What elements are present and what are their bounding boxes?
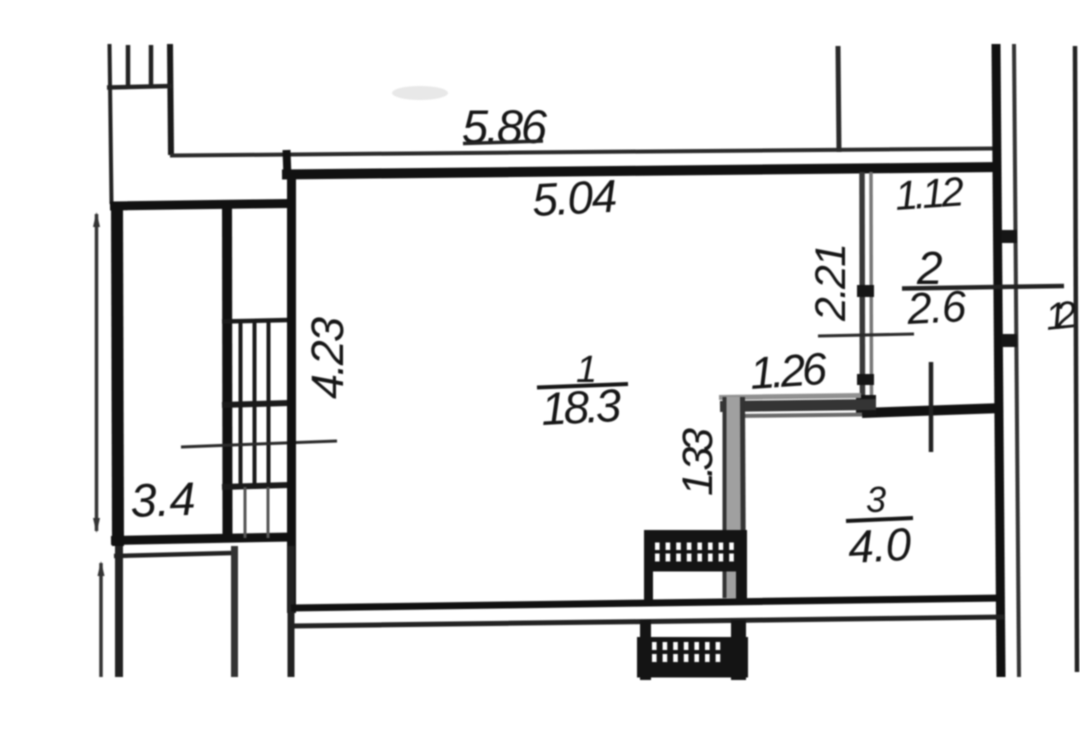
arrowhead top of lower-left dimension — [98, 561, 105, 576]
svg-text:5.86: 5.86 — [462, 100, 548, 153]
svg-text:5.04: 5.04 — [531, 170, 619, 226]
vent shaft lower: left rail — [640, 620, 651, 680]
dimension line left vertical (3.4 room height) — [95, 214, 99, 531]
wall: main top exterior wall — [282, 167, 1001, 175]
stair vertical 1 — [239, 322, 243, 486]
wall: outer parallel line right side — [1014, 44, 1019, 677]
faint smudge near top middle — [392, 86, 448, 100]
vent shaft lower: black block with bottom bar — [637, 637, 748, 678]
wall: room2/room3 divider wall — [862, 408, 1003, 413]
wall: top-left shaft bottom — [107, 86, 172, 88]
closet grey wall horizontal top — [719, 396, 861, 398]
vertical tick through room2/3 wall — [929, 362, 934, 452]
wall: room 3.4 top wall — [110, 204, 289, 207]
dimension line lower-left vertical — [99, 563, 103, 677]
svg-text:2.21: 2.21 — [807, 243, 855, 322]
stair lower vertical 1 — [244, 487, 247, 538]
wall: below-floor vertical right — [288, 546, 295, 677]
wall: room 3.4 bottom inner line — [114, 553, 232, 556]
wall: room 3.4 bottom wall — [111, 537, 293, 541]
closet grey wall horizontal inner line — [736, 415, 862, 417]
svg-text:4.0: 4.0 — [847, 518, 913, 573]
tick on right wall upper — [1001, 230, 1017, 243]
leader line under 2.21 — [818, 334, 914, 336]
stair vertical 3 — [267, 322, 271, 486]
wall: top-left shaft hatch line 2 — [149, 45, 154, 87]
svg-text:3.4: 3.4 — [129, 472, 196, 527]
wall: below-floor vertical middle — [231, 546, 238, 677]
room 1 fraction line — [537, 384, 628, 388]
wall: main room left wall — [287, 172, 296, 613]
arrowhead bottom of left dimension — [93, 518, 100, 533]
closet grey wall vertical right edge — [743, 397, 744, 598]
stair rung bottom — [222, 485, 289, 487]
black stub joining divider and closet wall — [856, 395, 876, 415]
vent shaft upper: right rail — [736, 530, 747, 600]
wall: far right edge line — [1075, 46, 1077, 672]
svg-text:12: 12 — [1044, 294, 1079, 339]
wall: divider room1/room2 right line — [869, 172, 873, 410]
wall: top-left shaft left wall — [110, 44, 112, 204]
svg-text:1.33: 1.33 — [674, 428, 722, 496]
wall: divider room1/room2 left line — [859, 172, 865, 410]
vent shaft lower: white hatch dashes — [652, 642, 657, 650]
door jamb blob lower on divider — [857, 374, 874, 385]
wall: divider room3.4 / stair shaft — [222, 205, 233, 540]
wall: main bottom wall line 2 — [291, 617, 1004, 626]
vent shaft upper: left rail — [644, 530, 653, 600]
stair rung middle — [222, 403, 289, 405]
stair lower vertical 2 — [267, 487, 270, 538]
dimension line 5.86 (corridor top edge) — [170, 149, 995, 156]
svg-text:1.12: 1.12 — [893, 168, 965, 219]
stair rung top — [222, 320, 289, 322]
svg-text:4.23: 4.23 — [302, 317, 353, 399]
room 2 fraction line / 2.6 leader — [902, 286, 1064, 289]
closet grey wall vertical band fill — [723, 397, 745, 598]
vent shaft upper: white hatch dashes — [655, 543, 660, 551]
closet grey wall vertical left edge — [723, 397, 727, 598]
wall: top-left shaft right wall — [170, 44, 171, 155]
wall: room 3.4 left wall — [117, 203, 118, 546]
leader line for 4.23 — [181, 441, 337, 447]
wall: right exterior wall — [996, 44, 1001, 677]
svg-text:2.6: 2.6 — [905, 282, 968, 334]
tick on right wall lower — [1001, 334, 1017, 347]
wall: balcony divider above top wall — [838, 46, 839, 152]
svg-text:18.3: 18.3 — [540, 379, 623, 435]
arrowhead top of left dimension — [93, 212, 100, 227]
wall: main bottom wall line 1 — [291, 598, 1004, 608]
stair vertical 2 — [253, 322, 257, 486]
room 3 fraction line — [846, 518, 913, 521]
svg-text:1.26: 1.26 — [748, 343, 829, 399]
wall: top-left shaft hatch line 1 — [126, 45, 131, 87]
underline of 5.86 — [463, 141, 543, 144]
door jamb blob upper on divider — [857, 285, 874, 297]
wall: corner stub above main room left wall — [287, 150, 288, 178]
vent shaft upper: black block — [644, 530, 747, 572]
svg-text:3: 3 — [866, 479, 886, 520]
wall: below-floor vertical left — [115, 546, 123, 677]
vent shaft lower: right rail — [731, 620, 746, 680]
